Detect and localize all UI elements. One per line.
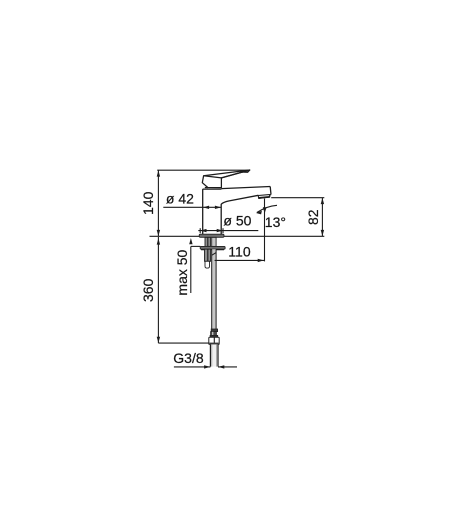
- column left edge: [202, 189, 204, 235]
- svg-text:max 50: max 50: [174, 249, 190, 295]
- svg-text:13°: 13°: [265, 214, 286, 230]
- faucet handle lever: [202, 170, 250, 188]
- supply pipe tail: [210, 344, 218, 366]
- svg-text:82: 82: [305, 209, 321, 225]
- fitting collar: [210, 335, 218, 337]
- hose end neck: [211, 332, 217, 336]
- dimension line G3/8: [174, 366, 211, 368]
- column top under handle: [203, 188, 222, 190]
- connection nut G3/8: [209, 337, 219, 344]
- flexible supply hose: [212, 249, 216, 329]
- extension line bottom of 360 at supply pipe nut: [158, 342, 209, 344]
- max 50 arrow and leader: [189, 238, 192, 244]
- spout tip bottom corner: [270, 194, 271, 196]
- extension line from spout outlet (13deg / 110): [264, 199, 266, 262]
- dimension line 360: [157, 237, 159, 343]
- spout end face: [269, 187, 272, 195]
- 13 degree arc with arrows: [257, 205, 277, 212]
- dimension line diameter 42: [163, 206, 221, 208]
- dimension line 110: [215, 259, 264, 261]
- hose jog detail: [212, 253, 216, 256]
- svg-text:ø 42: ø 42: [166, 191, 194, 207]
- hose crimp ferrule: [211, 329, 217, 332]
- svg-text:110: 110: [228, 243, 251, 259]
- svg-text:360: 360: [140, 278, 156, 302]
- svg-text:140: 140: [140, 191, 156, 215]
- svg-text:G3/8: G3/8: [173, 350, 204, 366]
- spout top edge: [221, 187, 270, 189]
- column right edge below spout: [220, 204, 222, 235]
- threaded stud under flange: [205, 237, 211, 246]
- base flange: [199, 234, 224, 237]
- dimension line 140: [157, 170, 159, 236]
- spout underside: [221, 195, 258, 204]
- extension line spout outlet level (82 top): [271, 197, 324, 199]
- extension line top (140 upper reference at handle tip): [157, 169, 249, 171]
- dimension line 82: [321, 198, 323, 237]
- faucet body column and spout outline: [203, 187, 271, 235]
- dimension line diameter 50: [198, 230, 258, 232]
- deck / countertop line: [150, 235, 325, 237]
- flexible hose upper part: [212, 237, 216, 246]
- extension tick washer top for max 50: [191, 245, 200, 247]
- svg-text:ø 50: ø 50: [223, 213, 251, 229]
- mounting washer plate: [200, 246, 225, 249]
- stud tailpiece: [205, 261, 210, 268]
- aerator at spout tip: [258, 195, 270, 199]
- mounting nut on stud: [205, 249, 211, 261]
